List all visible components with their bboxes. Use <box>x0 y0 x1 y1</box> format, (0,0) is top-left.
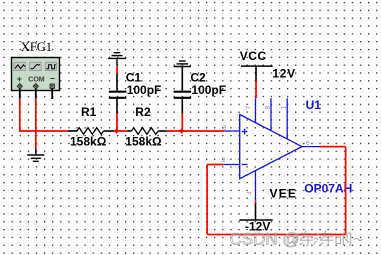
wire: XFG1 minus terminal stub <box>51 88 53 99</box>
wire: junction to R2 (red) <box>116 130 127 132</box>
svg-text:VEE: VEE <box>270 187 298 201</box>
svg-text:R1: R1 <box>81 105 97 119</box>
resistor R2 <box>125 105 166 148</box>
svg-text:U1: U1 <box>306 98 322 112</box>
svg-text:100pF: 100pF <box>191 83 226 97</box>
resistor R1 <box>68 105 117 148</box>
wire: COM to ground (red) <box>35 99 37 148</box>
node: junction R1/C1 <box>114 128 119 133</box>
node: junction R2/C2 <box>179 128 184 133</box>
wire: C2 bottom to main node (red) <box>181 114 183 132</box>
bottom pin 4 V- <box>255 171 257 201</box>
function generator XFG1 <box>12 40 60 90</box>
svg-text:XFG1: XFG1 <box>21 40 52 54</box>
svg-text:158kΩ: 158kΩ <box>125 134 162 148</box>
wire: R2 to junction C2 and op-amp (red) <box>167 130 225 132</box>
wire: XFG1 COM terminal stub <box>35 88 37 99</box>
svg-text:8: 8 <box>265 106 272 110</box>
power VEE -12V <box>239 187 297 234</box>
wire: op-amp output (red) <box>320 146 346 148</box>
wire: feedback loop left side (red) <box>206 165 208 235</box>
op-amp U1 OP07AH <box>222 98 353 201</box>
non-inverting input pin 3 <box>224 130 239 132</box>
watermark CSDN <box>230 230 363 249</box>
wire: feedback to inverting input (red) <box>207 164 223 166</box>
svg-text:158kΩ: 158kΩ <box>70 134 107 148</box>
svg-text:1: 1 <box>281 106 288 110</box>
wire: feedback loop bottom (red) <box>207 234 346 236</box>
svg-text:CSDN @: CSDN @ <box>230 230 300 249</box>
ground (below COM) <box>27 148 44 161</box>
wire: XFG1 plus to main node (red) <box>20 99 68 131</box>
power VCC 12V <box>240 49 296 81</box>
svg-text:COM: COM <box>28 77 45 84</box>
svg-text:4: 4 <box>247 191 254 195</box>
wire: feedback loop right side (red) <box>345 147 347 235</box>
svg-text:12V: 12V <box>272 67 295 81</box>
inverting input pin 2 <box>223 164 239 166</box>
wire: XFG1 plus terminal stub <box>19 88 21 99</box>
wire: op-amp V- pin to VEE (red segment) <box>255 201 257 204</box>
svg-text:100pF: 100pF <box>127 83 162 97</box>
svg-text:R2: R2 <box>135 105 151 119</box>
capacitor C1 <box>109 66 162 113</box>
svg-text:7: 7 <box>246 106 253 110</box>
top pin 7 V+ <box>255 98 257 123</box>
svg-text:2: 2 <box>222 157 226 164</box>
svg-text:VCC: VCC <box>240 49 267 63</box>
wire: VCC to op-amp V+ pin (red) <box>255 81 257 99</box>
wire: C1 bottom to main node (red) <box>116 114 118 132</box>
capacitor C2 <box>174 67 226 114</box>
svg-text:−: − <box>50 74 55 84</box>
top pin 1 <box>286 98 288 139</box>
ground (above C2) <box>174 61 191 67</box>
ground (above C1) <box>108 53 126 66</box>
output pin 6 <box>302 146 320 148</box>
svg-text:+: + <box>17 74 22 84</box>
top pin 8 <box>270 98 272 131</box>
svg-text:6: 6 <box>306 140 310 147</box>
svg-text:3: 3 <box>223 125 227 132</box>
